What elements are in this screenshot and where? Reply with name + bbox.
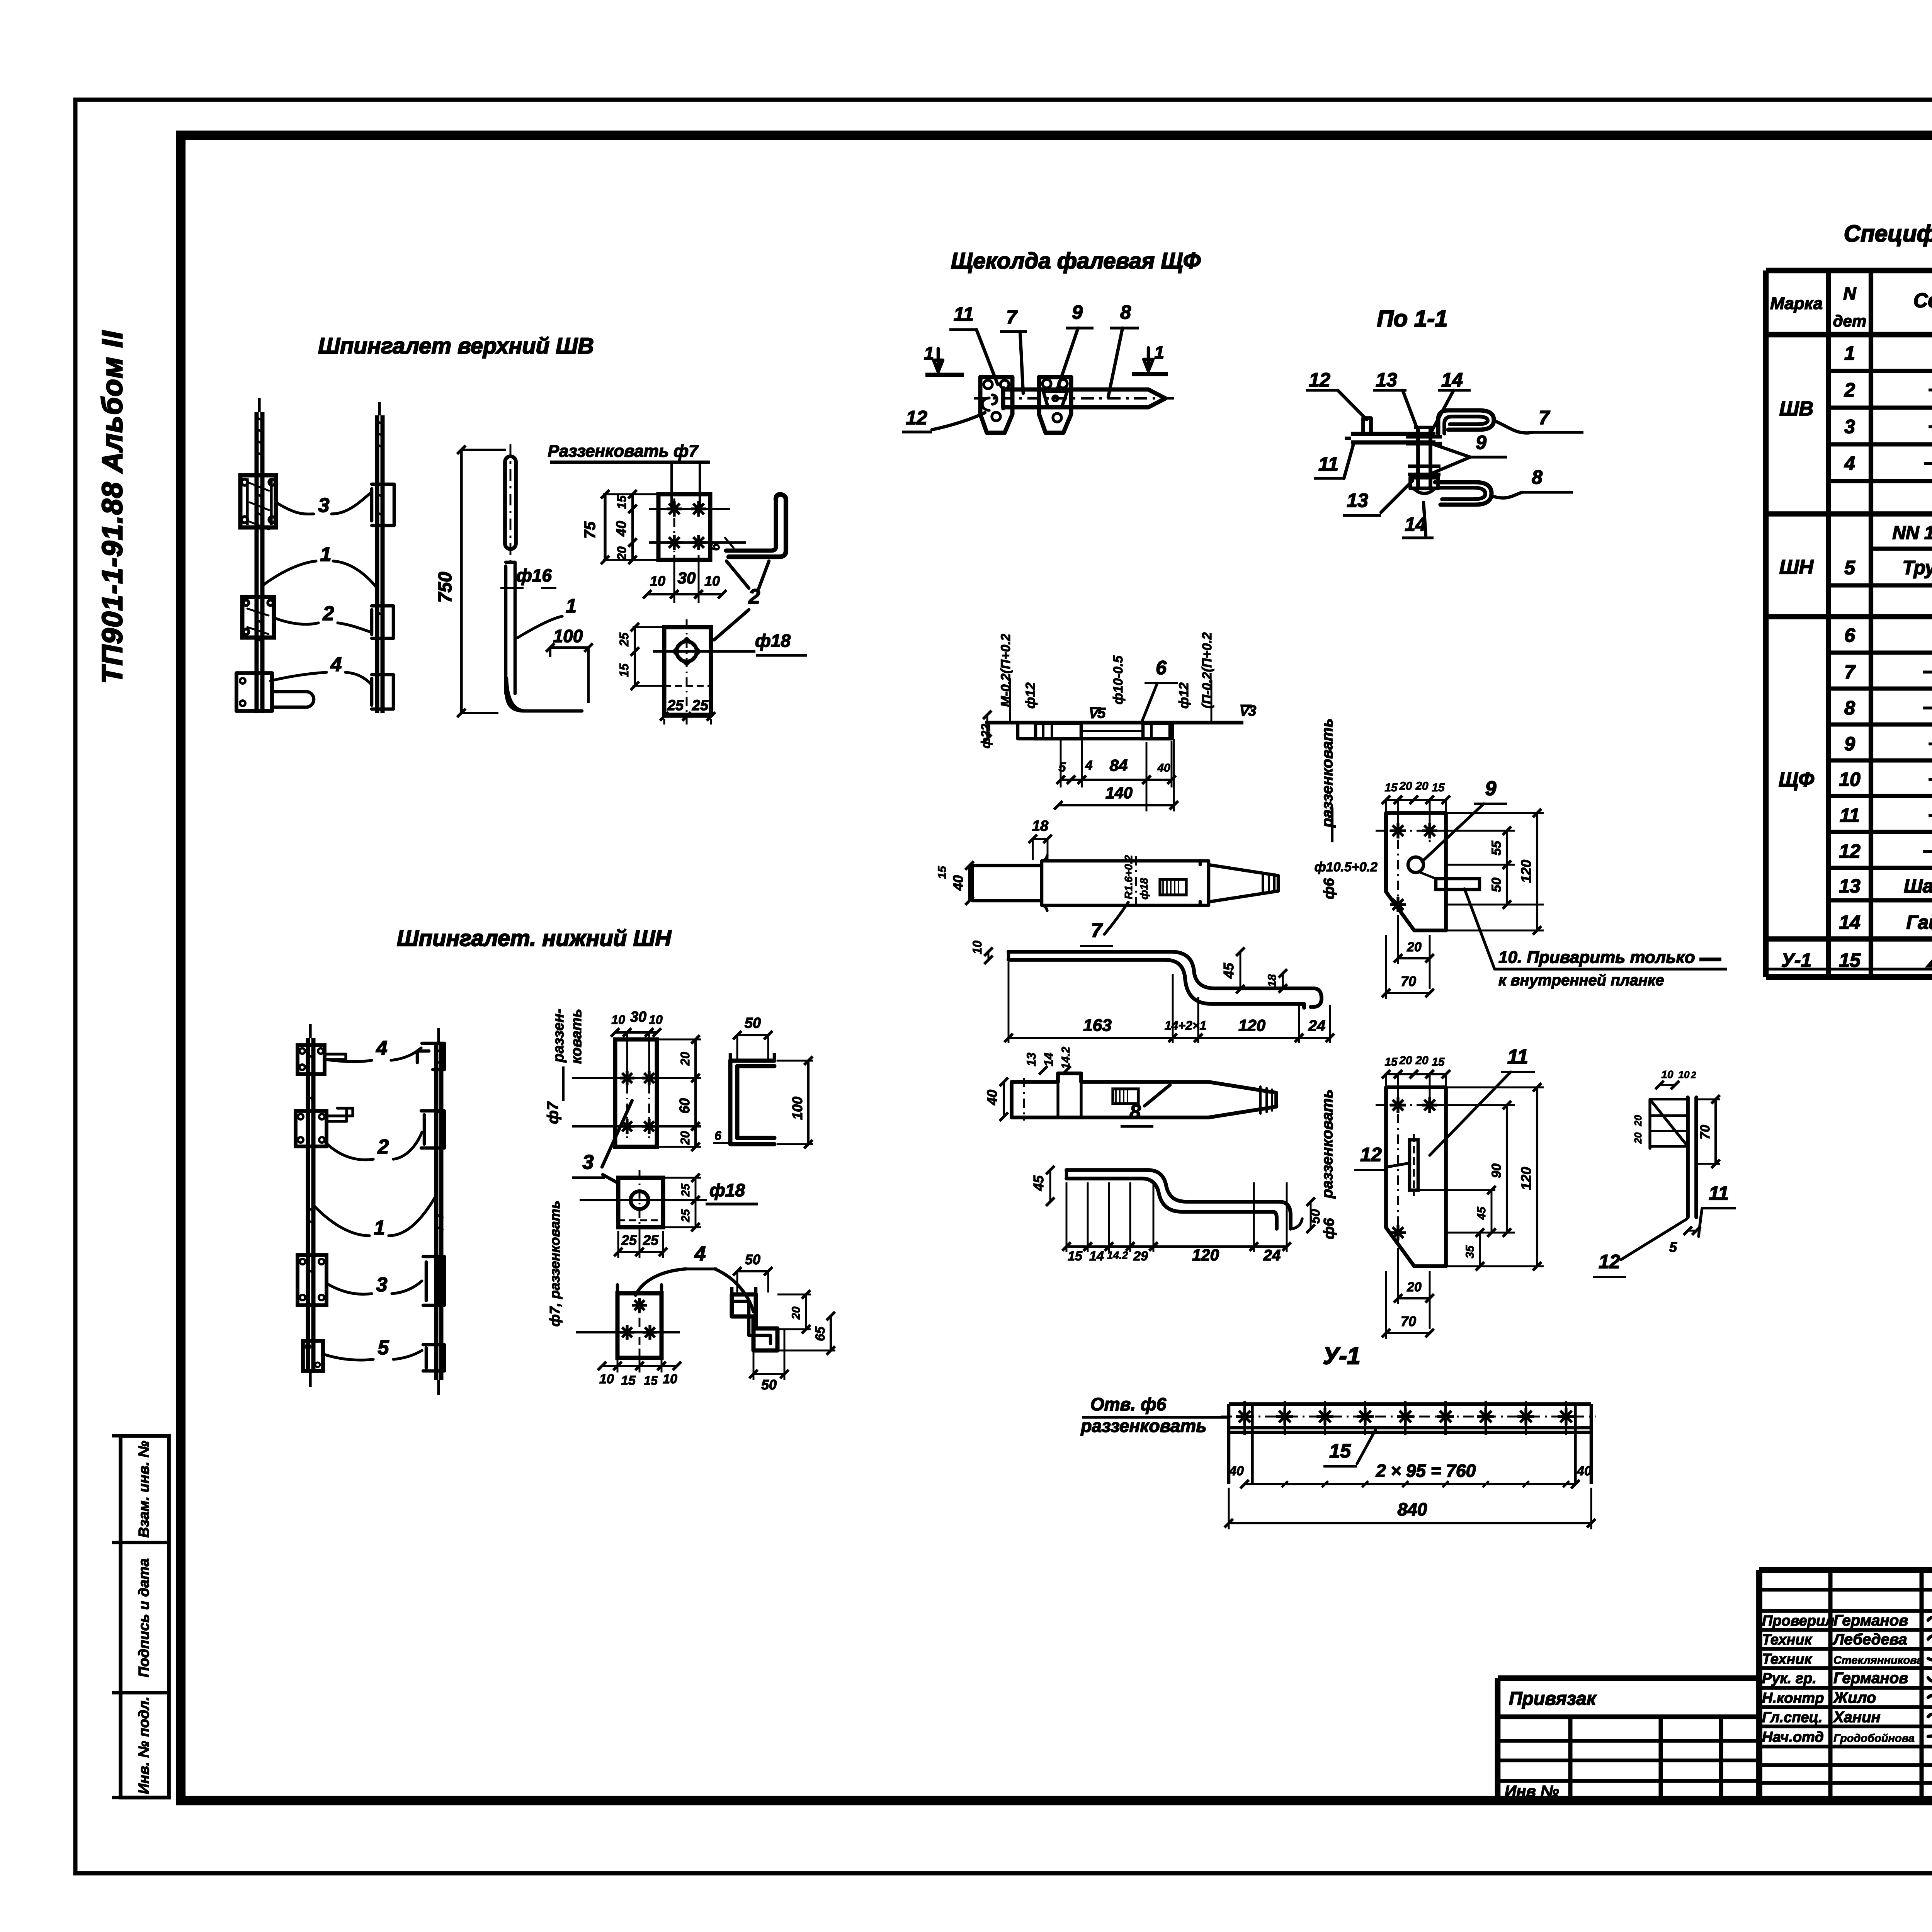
- svg-text:40: 40: [1229, 1464, 1244, 1478]
- SHN part 3 channel dims: [737, 1034, 768, 1036]
- svg-text:раззенковать: раззенковать: [1319, 1089, 1336, 1199]
- svg-text:Спецификация стали на одно: Спецификация стали на одно изделие: [1844, 221, 1932, 247]
- svg-text:15: 15: [1432, 781, 1445, 794]
- svg-text:5: 5: [1844, 557, 1855, 578]
- svg-text:Стеклянникова: Стеклянникова: [1833, 1654, 1923, 1667]
- svg-text:2: 2: [323, 602, 334, 625]
- svg-text:18: 18: [1032, 818, 1049, 834]
- svg-text:2: 2: [378, 1136, 389, 1158]
- SHN left rod bottom plate: [303, 1341, 323, 1371]
- SHV assembly left rod: [255, 412, 259, 713]
- Po 1-1 part 7 hook top: [1438, 410, 1494, 434]
- svg-text:Отв. ф6: Отв. ф6: [1090, 1394, 1167, 1414]
- svg-text:20: 20: [678, 1131, 692, 1145]
- svg-text:Жило: Жило: [1833, 1689, 1876, 1706]
- SHV plate 3 dims left: [603, 493, 658, 495]
- svg-text:ЩФ: ЩФ: [1779, 769, 1814, 791]
- svg-text:12: 12: [1360, 1144, 1382, 1165]
- svg-text:14: 14: [1042, 1053, 1056, 1066]
- SCHF bolt bar: [1003, 389, 1165, 407]
- svg-text:11: 11: [954, 303, 974, 325]
- SHV plate 3 detail: [658, 494, 710, 560]
- svg-text:24: 24: [1308, 1017, 1326, 1034]
- SHN assembly right rod: [434, 1043, 439, 1380]
- svg-text:25: 25: [667, 697, 684, 714]
- svg-text:ШВ: ШВ: [1779, 398, 1813, 420]
- SHN plate 2 dims top: [615, 1031, 627, 1034]
- svg-text:100: 100: [553, 626, 583, 646]
- svg-text:15: 15: [1068, 1249, 1083, 1264]
- svg-text:Марка: Марка: [1770, 294, 1823, 313]
- svg-text:11: 11: [1318, 453, 1338, 475]
- svg-text:14: 14: [1839, 912, 1861, 933]
- svg-text:10: 10: [704, 573, 720, 589]
- svg-text:10: 10: [1661, 1068, 1673, 1080]
- spec table grid: [1766, 268, 1932, 274]
- svg-text:ф12: ф12: [1023, 682, 1038, 709]
- svg-text:120: 120: [1518, 860, 1534, 883]
- svg-text:5: 5: [1059, 760, 1066, 775]
- svg-text:−50×6: −50×6: [1928, 416, 1932, 437]
- svg-text:дет: дет: [1833, 312, 1867, 330]
- SHV rod 1 bottom angle bracket: [236, 673, 272, 711]
- svg-text:7: 7: [1006, 306, 1018, 328]
- svg-text:10: 10: [663, 1372, 677, 1386]
- SHV hook part 2 side view: [729, 495, 786, 557]
- svg-text:40: 40: [950, 875, 966, 891]
- svg-text:35: 35: [1464, 1245, 1476, 1259]
- SHV assembly right rod: [375, 415, 379, 713]
- svg-text:ШН: ШН: [1779, 556, 1814, 578]
- svg-text:25: 25: [621, 1232, 637, 1248]
- svg-text:∇5: ∇5: [1088, 705, 1106, 721]
- svg-text:10: 10: [970, 940, 984, 954]
- svg-text:13: 13: [1347, 490, 1368, 511]
- SHN right rod clip 2: [421, 1111, 444, 1148]
- SHN plate 4 detail lower: [617, 1293, 662, 1358]
- svg-text:10: 10: [611, 1013, 625, 1027]
- svg-text:25: 25: [679, 1183, 692, 1197]
- fold mark dash: [1699, 957, 1721, 961]
- part 11 dims bottom: [1398, 1297, 1430, 1299]
- svg-text:−40×10: −40×10: [1922, 697, 1932, 719]
- svg-text:3: 3: [318, 494, 330, 517]
- svg-text:Рук. гр.: Рук. гр.: [1762, 1670, 1816, 1687]
- svg-text:20: 20: [1406, 1280, 1422, 1294]
- SHN left rod plate 3: [298, 1255, 327, 1305]
- SHN part 4 Z profile: [732, 1294, 777, 1350]
- svg-text:ф6: ф6: [1321, 878, 1337, 900]
- svg-text:Сечение: Сечение: [1913, 289, 1932, 312]
- svg-text:−70×5: −70×5: [1928, 733, 1932, 755]
- svg-text:Гайка М12: Гайка М12: [1906, 912, 1932, 933]
- svg-text:750: 750: [435, 572, 456, 603]
- svg-text:7: 7: [1091, 919, 1103, 942]
- svg-text:ф10-0.5: ф10-0.5: [1111, 655, 1126, 705]
- svg-text:15: 15: [615, 495, 629, 509]
- svg-text:1: 1: [924, 343, 934, 363]
- svg-text:9: 9: [1476, 432, 1486, 453]
- svg-text:8: 8: [1120, 301, 1131, 323]
- svg-text:20: 20: [678, 1052, 692, 1066]
- Po 1-1 bolt vertical: [1416, 427, 1420, 490]
- svg-text:11: 11: [1840, 804, 1860, 826]
- svg-text:120: 120: [1238, 1016, 1265, 1034]
- svg-text:3: 3: [1844, 416, 1855, 437]
- svg-text:ф7: ф7: [544, 1101, 561, 1124]
- SHN right rod bottom clip: [423, 1345, 444, 1371]
- svg-text:18: 18: [1266, 974, 1279, 987]
- svg-text:30: 30: [678, 569, 696, 587]
- Po 1-1 plate 11 horizontal bar: [1351, 432, 1435, 436]
- svg-text:8: 8: [1130, 1101, 1141, 1123]
- SHV rod 1 middle plate detail: [242, 597, 274, 638]
- svg-text:1: 1: [320, 543, 332, 566]
- svg-text:15: 15: [621, 1373, 636, 1388]
- svg-text:Проверил: Проверил: [1762, 1613, 1834, 1629]
- svg-text:4: 4: [1085, 758, 1093, 773]
- svg-text:10: 10: [1679, 1069, 1690, 1080]
- svg-text:ф18: ф18: [709, 1180, 745, 1200]
- Po 1-1 part 8 hook bottom: [1435, 482, 1492, 505]
- svg-text:ф16: ф16: [516, 565, 552, 585]
- SHV right rod clip 1: [372, 484, 394, 526]
- SCHF section mark 1 right: [1132, 372, 1168, 376]
- svg-text:11: 11: [1507, 1046, 1528, 1068]
- svg-text:R1.6+0.2: R1.6+0.2: [1122, 855, 1134, 899]
- svg-text:Н.контр: Н.контр: [1762, 1690, 1824, 1706]
- svg-text:ТП901-1-91.88 Альбом II: ТП901-1-91.88 Альбом II: [96, 330, 128, 684]
- SHN right rod top hook: [417, 1043, 444, 1070]
- svg-text:50: 50: [745, 1015, 761, 1031]
- svg-text:9: 9: [1072, 301, 1083, 323]
- svg-text:4: 4: [694, 1243, 706, 1265]
- SHV plate 3 dims bottom: [647, 593, 674, 595]
- SHV plate 3 hole leaders: [670, 462, 673, 510]
- svg-text:65: 65: [813, 1326, 828, 1341]
- SHN assembly left rod: [306, 1038, 310, 1371]
- part 9 part 10 slot plate: [1436, 879, 1480, 889]
- svg-text:12: 12: [1309, 369, 1330, 391]
- svg-text:Взам. инв. №: Взам. инв. №: [136, 1441, 152, 1538]
- svg-text:ф10.5+0.2: ф10.5+0.2: [1315, 860, 1378, 874]
- svg-text:NN 1÷4 по ШВ: NN 1÷4 по ШВ: [1892, 523, 1932, 543]
- svg-text:Инв №: Инв №: [1505, 1782, 1559, 1800]
- svg-text:50: 50: [1308, 1209, 1323, 1224]
- svg-text:11: 11: [1709, 1182, 1729, 1204]
- svg-text:3: 3: [583, 1151, 594, 1173]
- svg-text:50: 50: [745, 1252, 760, 1267]
- svg-text:75: 75: [582, 521, 599, 539]
- part 8 bar dims: [1066, 1245, 1088, 1248]
- svg-text:20: 20: [1632, 1115, 1644, 1126]
- part 12 dims: [1660, 1084, 1675, 1086]
- svg-text:25: 25: [617, 632, 631, 647]
- svg-text:Инв. № подл.: Инв. № подл.: [136, 1697, 152, 1794]
- svg-text:15: 15: [1839, 949, 1861, 971]
- svg-text:ф12: ф12: [1177, 682, 1191, 709]
- svg-text:14.2: 14.2: [1107, 1249, 1128, 1261]
- svg-text:N: N: [1843, 283, 1856, 303]
- svg-text:ф18: ф18: [755, 631, 791, 651]
- svg-text:−40×10: −40×10: [1922, 840, 1932, 862]
- part 6 dim 140: [1058, 804, 1174, 806]
- svg-text:раззен-: раззен-: [551, 1009, 567, 1063]
- svg-text:1: 1: [374, 1217, 385, 1239]
- Po 1-1 part 12 tab: [1363, 418, 1371, 434]
- svg-text:2: 2: [1690, 1070, 1696, 1080]
- svg-text:50: 50: [1489, 878, 1504, 892]
- svg-text:70: 70: [1401, 1313, 1416, 1329]
- svg-text:8: 8: [1532, 466, 1543, 488]
- svg-text:55: 55: [1489, 840, 1504, 855]
- svg-text:45: 45: [1031, 1175, 1046, 1191]
- part 11 slot part 12: [1410, 1140, 1418, 1190]
- svg-text:6: 6: [708, 543, 723, 551]
- svg-text:84: 84: [1110, 756, 1128, 774]
- privyazka block: [1498, 1675, 1759, 1681]
- svg-text:2: 2: [1844, 379, 1855, 401]
- svg-text:20: 20: [1406, 940, 1422, 954]
- svg-text:30: 30: [630, 1009, 646, 1025]
- svg-text:1: 1: [1154, 342, 1164, 362]
- part 11 plate outline: [1386, 1087, 1446, 1266]
- svg-text:60: 60: [677, 1098, 692, 1114]
- margin stamp box: [121, 1436, 169, 1798]
- svg-text:12: 12: [1839, 840, 1861, 862]
- svg-text:У-1: У-1: [1781, 949, 1811, 971]
- svg-text:ф6: ф6: [1321, 1218, 1337, 1240]
- svg-text:−40×10: −40×10: [1922, 661, 1932, 683]
- SHN plate phi18 dims: [663, 1177, 701, 1179]
- SCHF section mark 1 left: [925, 373, 964, 377]
- part 9 dims top: [1386, 799, 1398, 801]
- svg-text:5: 5: [1669, 1239, 1677, 1255]
- svg-text:−70×5: −70×5: [1928, 804, 1932, 826]
- part 9 dims bottom: [1398, 957, 1430, 959]
- svg-text:12: 12: [1599, 1251, 1620, 1272]
- svg-text:40: 40: [1577, 1464, 1592, 1478]
- svg-text:9: 9: [1485, 777, 1497, 800]
- svg-text:40: 40: [1157, 762, 1170, 774]
- SCHF mounting plate left: [980, 377, 1012, 433]
- svg-text:20: 20: [1399, 780, 1412, 793]
- svg-text:7: 7: [1844, 661, 1856, 683]
- svg-text:70: 70: [1401, 973, 1416, 989]
- svg-text:Гл.спец.: Гл.спец.: [1762, 1709, 1823, 1726]
- svg-text:10: 10: [599, 1372, 614, 1386]
- part 7 flat bar Z-profile: [1009, 952, 1321, 1007]
- svg-text:Нач.отд: Нач.отд: [1762, 1729, 1824, 1745]
- part 8 flat bar Z-profile: [1066, 1170, 1291, 1229]
- svg-text:20: 20: [1415, 1054, 1429, 1067]
- sheet inner border frame: [181, 135, 1932, 1801]
- svg-text:50: 50: [761, 1377, 777, 1393]
- SHN plate phi18 middle: [618, 1178, 663, 1227]
- SHN left rod top plate: [298, 1045, 325, 1074]
- svg-text:13: 13: [1839, 875, 1861, 897]
- svg-text:14: 14: [1441, 369, 1463, 391]
- svg-text:90: 90: [1489, 1163, 1504, 1178]
- part 7 bolt drawing: [972, 856, 1042, 866]
- svg-text:ковать: ковать: [568, 1009, 585, 1064]
- SHV right rod clip 3: [372, 675, 393, 709]
- U-1 angle bar top view: [1229, 1402, 1591, 1406]
- svg-text:Лебедева: Лебедева: [1832, 1631, 1907, 1648]
- svg-text:6: 6: [714, 1129, 721, 1143]
- svg-text:15: 15: [936, 866, 949, 879]
- SHN left rod bracket 2: [296, 1111, 327, 1146]
- svg-text:15: 15: [644, 1374, 658, 1388]
- svg-text:140: 140: [1105, 784, 1133, 802]
- svg-text:29: 29: [1133, 1249, 1148, 1264]
- svg-text:45: 45: [1475, 1206, 1488, 1220]
- svg-text:ф7, раззенковать: ф7, раззенковать: [547, 1201, 563, 1327]
- svg-text:24: 24: [1263, 1247, 1281, 1264]
- svg-text:40: 40: [613, 521, 629, 537]
- part 9 dims right: [1446, 830, 1515, 832]
- svg-text:1: 1: [566, 595, 577, 617]
- svg-text:4: 4: [330, 653, 342, 676]
- part 11 hole marks: [1396, 1097, 1399, 1113]
- part 11 dims top: [1386, 1073, 1398, 1075]
- U-1 dim row 840: [1229, 1522, 1591, 1524]
- svg-text:15: 15: [1384, 1056, 1398, 1068]
- svg-text:7: 7: [1539, 407, 1550, 429]
- svg-text:10: 10: [1839, 769, 1861, 790]
- SHV rod detail dimension 750: [460, 450, 463, 713]
- svg-text:Раззенковать ф7: Раззенковать ф7: [548, 442, 699, 461]
- Po 1-1 part 13 washer top: [1406, 435, 1442, 439]
- SHN right rod clip 3: [423, 1257, 444, 1305]
- part 11 dims right: [1446, 1104, 1515, 1106]
- svg-text:∠50×5: ∠50×5: [1925, 949, 1932, 971]
- svg-text:4: 4: [1844, 452, 1855, 474]
- U-1 hole marks: [1243, 1408, 1246, 1425]
- part 8 bolt drawing: [1012, 1073, 1276, 1117]
- svg-text:13: 13: [1024, 1053, 1038, 1066]
- SHN part 3 channel profile: [730, 1061, 774, 1144]
- svg-text:100: 100: [789, 1097, 805, 1120]
- svg-text:−50×6: −50×6: [1928, 379, 1932, 401]
- SCHF mounting plate right: [1039, 377, 1071, 433]
- svg-text:40: 40: [984, 1090, 1000, 1105]
- svg-text:−10×5: −10×5: [1928, 769, 1932, 790]
- svg-text:15: 15: [1432, 1056, 1445, 1068]
- U-1 dim row 2x95=760: [1245, 1483, 1575, 1485]
- svg-text:−115×6: −115×6: [1923, 452, 1932, 474]
- svg-text:20: 20: [790, 1306, 803, 1320]
- svg-text:Шайба d12: Шайба d12: [1904, 875, 1932, 897]
- svg-text:8: 8: [1844, 697, 1855, 719]
- svg-text:6: 6: [1844, 624, 1855, 646]
- SHV rod detail part outline: [505, 456, 516, 549]
- svg-text:Гродобойнова: Гродобойнова: [1833, 1732, 1915, 1745]
- part 7 bolt dims: [1033, 838, 1048, 840]
- svg-text:3: 3: [376, 1274, 388, 1296]
- svg-text:ф18: ф18: [1138, 878, 1150, 900]
- svg-text:2 × 95 = 760: 2 × 95 = 760: [1376, 1461, 1476, 1481]
- svg-text:Щеколда фалевая ЩФ: Щеколда фалевая ЩФ: [951, 248, 1201, 274]
- part 9 hole marks: [1396, 823, 1399, 838]
- svg-text:25: 25: [679, 1209, 692, 1223]
- svg-text:5: 5: [378, 1337, 389, 1359]
- svg-text:Техник: Техник: [1762, 1651, 1813, 1667]
- svg-text:Шпингалет. нижний ШН: Шпингалет. нижний ШН: [397, 926, 672, 951]
- svg-text:10: 10: [649, 1013, 663, 1027]
- svg-text:9: 9: [1844, 733, 1855, 755]
- title block frame: [1759, 1567, 1932, 1573]
- svg-text:15: 15: [617, 663, 631, 677]
- SHN part 4 dims: [737, 1270, 768, 1272]
- svg-text:20: 20: [1415, 780, 1429, 793]
- svg-text:4: 4: [376, 1037, 388, 1060]
- svg-text:120: 120: [1192, 1246, 1219, 1264]
- svg-text:Труба ф3/4: Труба ф3/4: [1902, 557, 1932, 578]
- SHN plate 2 detail upper: [615, 1039, 657, 1147]
- svg-text:120: 120: [1518, 1167, 1534, 1190]
- svg-text:У-1: У-1: [1323, 1343, 1360, 1369]
- svg-text:25: 25: [692, 697, 709, 714]
- svg-text:15: 15: [1329, 1440, 1351, 1462]
- svg-text:15: 15: [1384, 781, 1398, 794]
- svg-text:к внутренней планке: к внутренней планке: [1498, 972, 1664, 989]
- svg-text:20: 20: [1632, 1132, 1644, 1144]
- svg-text:1: 1: [1844, 342, 1855, 364]
- SHV plate 2 detail with phi18 hole: [664, 627, 711, 715]
- SHV right rod clip 2: [372, 606, 393, 638]
- SHV rod detail dimension 100: [550, 646, 588, 649]
- svg-text:70: 70: [1698, 1125, 1713, 1139]
- svg-text:10. Приварить только: 10. Приварить только: [1498, 948, 1695, 967]
- svg-text:По 1-1: По 1-1: [1377, 306, 1447, 332]
- svg-text:12: 12: [906, 407, 927, 429]
- svg-text:20: 20: [615, 546, 629, 561]
- svg-text:25: 25: [643, 1232, 659, 1248]
- part 12 strip detail: [1688, 1097, 1696, 1217]
- svg-text:∇3: ∇3: [1238, 703, 1257, 719]
- svg-text:Ханин: Ханин: [1833, 1709, 1881, 1726]
- part 6 rod drawing: [985, 721, 1243, 724]
- svg-text:13: 13: [1376, 369, 1397, 391]
- svg-text:Техник: Техник: [1762, 1632, 1813, 1648]
- svg-text:Привязак: Привязак: [1509, 1689, 1597, 1709]
- svg-text:45: 45: [1221, 963, 1236, 979]
- svg-text:Германов: Германов: [1833, 1612, 1908, 1629]
- svg-text:163: 163: [1083, 1016, 1111, 1035]
- svg-text:20: 20: [1399, 1054, 1412, 1067]
- svg-text:Подпись и дата: Подпись и дата: [136, 1558, 152, 1677]
- SHV plate 2 dims: [633, 626, 664, 628]
- svg-text:10: 10: [650, 573, 665, 589]
- svg-text:Шпингалет верхний ШВ: Шпингалет верхний ШВ: [318, 333, 594, 359]
- svg-text:14: 14: [1089, 1249, 1104, 1264]
- part 9 plate outline: [1386, 813, 1446, 930]
- svg-text:6: 6: [1156, 657, 1167, 679]
- SHN plate 2 dims right: [657, 1039, 701, 1041]
- Po 1-1 part 14 nut bottom: [1410, 478, 1438, 488]
- svg-text:840: 840: [1398, 1499, 1427, 1519]
- Po 1-1 part 13 washer middle: [1408, 464, 1440, 468]
- SHN plate 4 dims bottom: [602, 1365, 617, 1367]
- svg-text:14+2×1: 14+2×1: [1165, 1019, 1207, 1032]
- svg-text:Германов: Германов: [1833, 1670, 1908, 1687]
- part 7 bar dims: [988, 952, 990, 960]
- svg-text:раззенковать: раззенковать: [1080, 1416, 1206, 1436]
- SHV rod 1 upper plate detail: [240, 475, 276, 527]
